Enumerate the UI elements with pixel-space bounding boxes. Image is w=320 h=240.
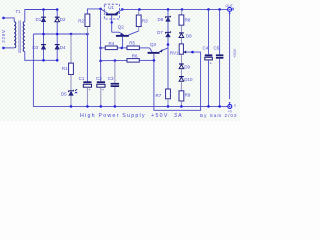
- wire D1 column: [43, 10, 45, 61]
- node R1 ground: [70, 105, 73, 108]
- node rail D6: [167, 8, 170, 11]
- input terminal bottom: [2, 47, 5, 50]
- svg-text:D8: D8: [186, 34, 192, 39]
- node U1 right pin: [121, 8, 124, 11]
- svg-text:R1: R1: [62, 66, 68, 71]
- svg-text:Q2: Q2: [118, 25, 125, 30]
- svg-text:D1: D1: [36, 17, 42, 22]
- svg-text:C1: C1: [79, 76, 85, 81]
- svg-text:High Power Supply +50V 3A: High Power Supply +50V 3A: [80, 113, 183, 119]
- svg-text:R3: R3: [142, 18, 148, 23]
- svg-text:U1: U1: [108, 5, 114, 10]
- wire R6 to Q3 node: [139, 59, 154, 61]
- wire Q3 emitter down: [153, 54, 155, 61]
- wire mid rail down to C1: [86, 34, 88, 81]
- node rail C5: [218, 8, 221, 11]
- node rail C4: [207, 8, 210, 11]
- node bridge top rail D2: [56, 8, 59, 11]
- wire D9 D10 leads: [180, 69, 182, 76]
- resistor R8: [179, 15, 184, 25]
- transistor Q3: [148, 48, 168, 54]
- mark near D5: [75, 89, 77, 91]
- resistor R6: [127, 59, 139, 63]
- op-amp U1 dashed box: [104, 4, 119, 19]
- svg-text:Q3: Q3: [150, 42, 157, 47]
- node D1 bottom rail: [42, 59, 45, 62]
- wire feedback loop: [154, 52, 201, 110]
- node rail R8: [181, 8, 184, 11]
- capacitor C5: [216, 9, 224, 106]
- wire R5 to Q3: [139, 47, 149, 49]
- capacitor C2: [97, 61, 105, 107]
- node R9 ground: [180, 105, 183, 108]
- wire R3 bottom: [138, 27, 140, 32]
- transformer T1 primary winding: [14, 22, 16, 48]
- svg-text:T1: T1: [16, 9, 22, 14]
- node Q3 bottom: [153, 59, 156, 62]
- svg-text:D7: D7: [157, 30, 163, 35]
- node wiper wire: [191, 51, 194, 54]
- wire U1 to Q2: [112, 31, 119, 33]
- wire U1 left column down: [100, 9, 102, 61]
- diode D8: [179, 32, 184, 37]
- top output rail: [122, 8, 227, 10]
- wire left column to ground rail: [33, 34, 227, 106]
- wire Q2 collector down: [122, 37, 124, 48]
- input terminal top: [2, 17, 5, 20]
- node C1 ground: [86, 105, 89, 108]
- node mid rail D1: [42, 33, 45, 36]
- node rail R3: [138, 8, 141, 11]
- svg-text:+: +: [89, 88, 91, 92]
- wire input top to primary: [4, 18, 15, 22]
- capacitor C3: [111, 61, 120, 107]
- wire C2 node to R6: [101, 59, 127, 61]
- node mid rail D2: [56, 33, 59, 36]
- wire R3 top to rail: [138, 9, 140, 15]
- svg-text:C4: C4: [203, 46, 209, 51]
- svg-text:D6: D6: [158, 17, 164, 22]
- resistor R9: [179, 91, 184, 101]
- wire R9 bottom: [180, 101, 182, 106]
- node U1 pin dot: [111, 21, 113, 23]
- svg-text:R2: R2: [78, 18, 84, 23]
- transistor U1 body: [101, 9, 123, 16]
- wire U1 emitter down: [111, 15, 113, 32]
- svg-text:R7: R7: [156, 93, 162, 98]
- node D7 bottom: [167, 43, 170, 46]
- output terminal OUT: [228, 7, 234, 16]
- transistor Q2: [116, 31, 139, 37]
- output terminal 0V: [228, 102, 232, 108]
- wire R2 top to U1: [87, 9, 100, 14]
- wire D10 to R9: [180, 81, 182, 91]
- zener D7: [166, 31, 171, 37]
- svg-text:n: n: [234, 104, 236, 108]
- capacitor C1: [83, 81, 91, 106]
- node U1 left pin: [99, 8, 102, 11]
- wire RV1 to D9: [180, 54, 182, 64]
- svg-text:+: +: [210, 62, 212, 66]
- diode D3: [41, 44, 46, 49]
- node C4 ground: [207, 105, 210, 108]
- svg-text:C2: C2: [96, 76, 102, 81]
- zener D5: [69, 90, 74, 96]
- wire D2 column: [56, 10, 58, 61]
- diode D1: [41, 17, 46, 22]
- resistor R1: [69, 63, 74, 74]
- svg-text:OUT: OUT: [225, 4, 233, 8]
- wire R1 bottom to D5: [70, 75, 72, 107]
- svg-text:R9: R9: [185, 92, 191, 97]
- node mid rail R1: [70, 33, 73, 36]
- resistor R5: [122, 46, 140, 50]
- svg-text:C5: C5: [214, 46, 220, 51]
- svg-text:+50V: +50V: [232, 48, 237, 58]
- transformer T1 core: [18, 21, 20, 54]
- bridge mid rail: [33, 33, 87, 35]
- wire D8 to RV1: [180, 38, 182, 44]
- resistor R7: [166, 89, 171, 99]
- resistor R3: [136, 15, 141, 27]
- wire R8 to D8: [180, 25, 182, 32]
- svg-text:220V: 220V: [1, 29, 6, 43]
- wire input bottom to primary: [4, 47, 14, 49]
- diode D2: [55, 17, 60, 22]
- zener D6: [166, 16, 171, 22]
- wire R1 top lead: [70, 34, 72, 63]
- wire R7 bottom: [167, 99, 169, 107]
- svg-text:R8: R8: [185, 18, 191, 23]
- wire R2 bottom to mid rail: [86, 27, 88, 35]
- svg-text:D2: D2: [60, 17, 66, 22]
- node C2 top: [99, 60, 102, 63]
- svg-text:D4: D4: [60, 45, 66, 50]
- node C3 ground: [114, 105, 117, 108]
- transformer T1 secondary winding: [23, 22, 25, 52]
- diode D4: [55, 44, 60, 49]
- svg-text:C3: C3: [108, 76, 114, 81]
- resistor R2: [85, 14, 90, 27]
- svg-text:R5: R5: [129, 40, 135, 45]
- node D2 bottom rail: [56, 59, 59, 62]
- node bridge top rail D1: [42, 8, 45, 11]
- wire secondary bottom to bridge bottom rail: [25, 52, 57, 61]
- diode D10: [179, 76, 184, 81]
- svg-text:By Sam 2/02: By Sam 2/02: [200, 113, 238, 118]
- node C5 ground: [218, 105, 221, 108]
- potentiometer RV1: [179, 44, 186, 54]
- node mid rail R2/C1: [86, 33, 89, 36]
- wire D6 column top: [167, 9, 169, 89]
- svg-text:R6: R6: [132, 54, 138, 59]
- svg-text:D5: D5: [61, 91, 67, 96]
- svg-text:RV1: RV1: [170, 50, 179, 55]
- wire secondary top to bridge top rail: [25, 10, 57, 22]
- capacitor C4: [205, 9, 213, 106]
- node R4 right: [120, 47, 123, 50]
- svg-text:+: +: [102, 88, 104, 92]
- node R4 left: [99, 47, 102, 50]
- node C3 top: [114, 59, 117, 62]
- svg-text:D9: D9: [184, 64, 190, 69]
- node R7 ground: [167, 105, 170, 108]
- wire output vertical: [229, 17, 231, 99]
- diode D9: [179, 63, 184, 68]
- node C2 ground: [100, 105, 103, 108]
- svg-text:D10: D10: [184, 77, 193, 82]
- svg-text:R4: R4: [109, 41, 115, 46]
- resistor R4: [101, 46, 122, 50]
- wire R8 top lead: [180, 9, 183, 15]
